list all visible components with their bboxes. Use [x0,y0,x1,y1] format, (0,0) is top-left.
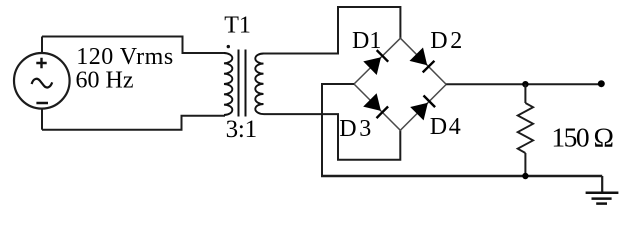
svg-text:150 Ω: 150 Ω [551,122,614,153]
AC source V1 circle [14,53,70,109]
wire left loop bottom [42,116,225,130]
ground bar 2 [592,197,612,200]
transformer T1 primary winding [224,53,232,115]
wire bridge right vertex to output [446,83,601,85]
svg-text:3:1: 3:1 [226,116,258,143]
ground bar 1 [586,192,619,195]
diode D3 triangle [363,93,381,111]
resistor R1 bottom lead [524,153,526,176]
resistor R1 top lead [524,84,526,103]
diode D2 bar [423,61,435,73]
resistor R1 zigzag [518,103,533,153]
svg-text:D2: D2 [430,28,462,54]
diode D2 triangle [410,48,428,66]
plus sign [36,58,46,68]
transformer core lines [239,50,246,117]
svg-text:60 Hz: 60 Hz [76,67,134,93]
wire bridge left vertex down to rail [322,84,354,176]
diode D3 bar [377,107,389,119]
svg-text:120 Vrms: 120 Vrms [76,44,173,70]
wire secondary bottom to bridge bottom [264,114,401,160]
transformer T1 secondary winding [255,54,263,115]
svg-text:D1: D1 [352,28,381,54]
ground bar 3 [596,202,607,205]
wire source top stub [41,37,43,54]
ground stem [601,176,603,193]
bridge diamond edges [354,38,446,130]
transformer polarity dot [227,45,230,48]
wire source bottom stub [41,109,43,130]
diode D1 triangle [363,57,381,75]
node dot resistor bottom [522,173,528,179]
diode D4 bar [424,96,436,108]
wire secondary top to bridge top [264,7,401,54]
diode D4 triangle [410,103,428,121]
node dot output terminal [598,80,605,87]
wire ground rail [321,175,602,178]
diode D1 bar [377,50,389,62]
wire left loop top [42,37,225,54]
minus sign [36,102,48,105]
svg-text:T1: T1 [224,13,251,39]
svg-text:D4: D4 [430,114,461,140]
sine wave [32,79,53,88]
svg-text:D3: D3 [339,116,371,142]
node dot resistor top [522,81,528,87]
